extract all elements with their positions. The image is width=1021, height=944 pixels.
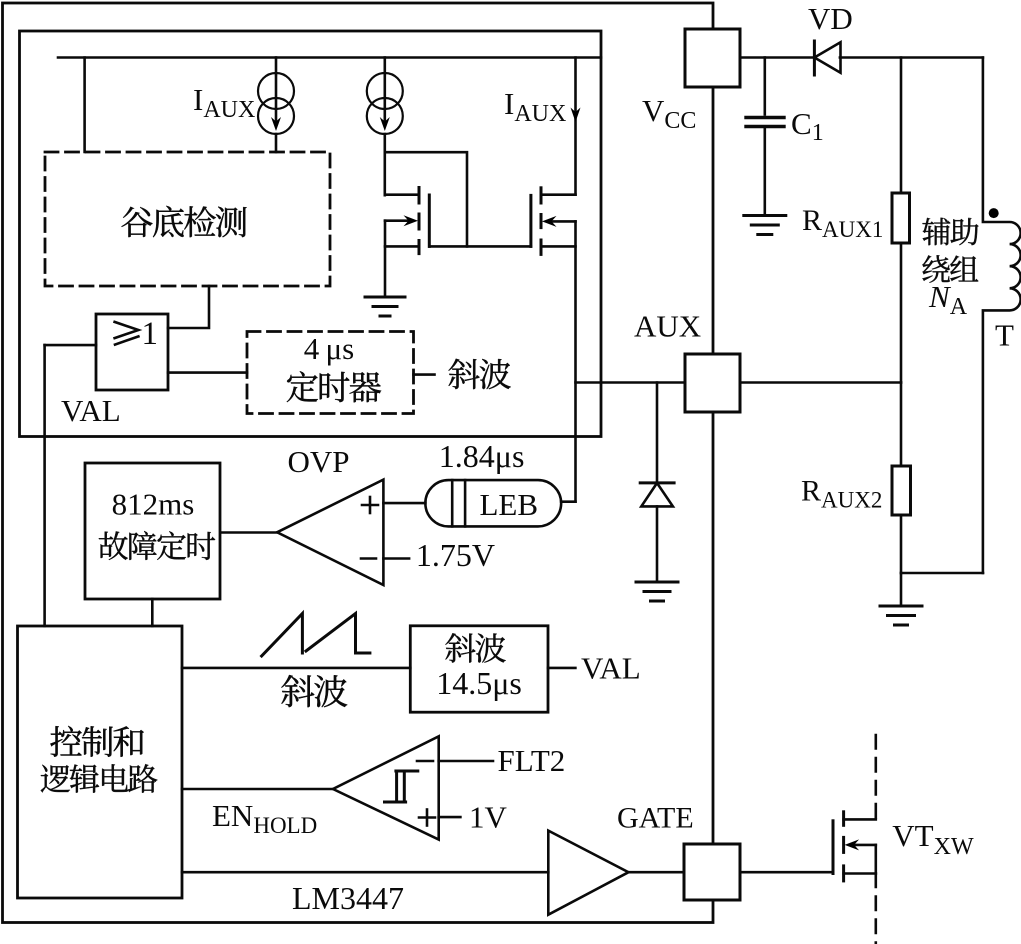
wire Q1 gate-drain tie [385,152,531,246]
label 斜波 (ramp wire) [281,675,347,707]
wire OR gate to timer [168,371,247,374]
label 辅助 [922,218,978,246]
ground under R_AUX2 [880,573,922,625]
wire control to ramp generator [182,667,410,670]
LEB block [425,480,561,526]
svg-text:LEB: LEB [480,487,539,522]
label 14.5μs [436,665,522,701]
IC outer box LM3447 [3,3,714,923]
valley detection dashed box [45,152,330,286]
label 1.75V [416,537,495,573]
label LM3447 [292,880,404,916]
label VAL (output) [581,651,641,686]
wire rail to valley-detect box [83,58,86,153]
label 控制和 [50,726,143,757]
wire timer ramp output [414,373,435,376]
auxiliary winding N_A [983,58,1021,574]
VCC pin square [685,29,740,87]
internal supply rail [58,56,601,59]
wire OVP- reference [383,557,409,560]
label VD [808,1,853,36]
label OVP [288,444,350,479]
label I_AUX (right) [504,86,566,127]
wire AUX net right [740,381,901,384]
OR gate box [96,314,168,390]
label T [995,318,1014,353]
wire Q2 drain to rail (I_AUX arrow) [571,58,581,195]
label ≥1 [115,316,158,352]
VT_XW drain dashed lead [874,735,877,819]
wire VAL output [548,667,575,670]
VT_XW source dashed lead [874,874,877,944]
label FLT2 [498,743,566,778]
svg-text:IAUX: IAUX [504,86,566,127]
svg-text:VAL: VAL [581,651,641,686]
current source I_AUX (left) [258,58,294,153]
svg-text:VD: VD [808,1,853,36]
resistor R_AUX1 [892,58,910,383]
label GATE [617,802,694,835]
label EN_HOLD [212,798,317,838]
label 斜波 (ramp box) [445,633,505,662]
label 逻辑电路 [41,764,158,793]
label 绕组 [922,255,978,283]
resistor R_AUX2 [892,383,911,574]
label LEB [480,487,539,522]
812ms fault timer box [85,463,220,599]
ramp waveform symbol [262,614,370,657]
wire valley-detect to OR gate [168,286,209,328]
svg-text:FLT2: FLT2 [498,743,566,778]
wire LEB to AUX sense [561,500,575,503]
label 定时器 [287,371,381,402]
ground under C1 [744,216,786,235]
wire AUX to clamp diode [656,383,659,484]
ramp generator box [410,626,548,712]
transistor Q2 (mirror output) [531,188,576,255]
wire OVP+ to LEB [383,502,425,505]
label 1.84μs [439,438,525,474]
4us timer dashed box [247,332,414,414]
label C1 [791,106,824,146]
wire OVP output to 812ms [222,531,277,534]
ground under Q1 [365,297,405,316]
label 1V [469,800,508,835]
svg-text:NA: NA [928,279,968,320]
label VAL (inner) [61,393,121,428]
gate driver buffer [548,831,628,915]
wire VCC to VD [740,56,814,59]
svg-text:1V: 1V [469,800,508,835]
polarity dot [989,208,999,218]
diode D1 (AUX clamp) [640,483,674,582]
current source I_AUX (right, mirror) [367,58,403,196]
label 斜波 (timer output) [448,359,510,389]
wire R_AUX2 to winding bottom [901,572,983,575]
wire control to gate driver [182,871,548,874]
wire AUX net left [576,381,686,384]
svg-text:C1: C1 [791,106,824,146]
svg-text:OVP: OVP [288,444,350,479]
comparator EN_HOLD [333,736,439,839]
wire VAL bus down to control logic [43,345,46,626]
label 812ms [112,487,195,522]
svg-text:1.75V: 1.75V [416,537,495,573]
wire GATE to VT_XW [740,871,833,874]
GATE pin square [684,844,740,900]
svg-text:812ms: 812ms [112,487,195,522]
transistor VT_XW [833,812,876,881]
label 4μs [304,331,354,366]
svg-text:T: T [995,318,1014,353]
svg-text:RAUX2: RAUX2 [801,475,882,513]
svg-text:IAUX: IAUX [193,82,255,123]
wire 1V reference [439,816,461,819]
svg-text:14.5μs: 14.5μs [436,665,522,701]
svg-text:VAL: VAL [61,393,121,428]
svg-text:1.84μs: 1.84μs [439,438,525,474]
label VT_XW [892,818,974,860]
label N_A [928,279,968,320]
wire Q2 source down to AUX/LEB node [574,221,577,501]
label AUX [634,309,701,344]
wire EN_HOLD to control logic [182,788,333,791]
capacitor C1 [746,58,784,215]
wire VD to winding top [840,56,983,59]
comparator OVP [277,480,383,585]
AUX pin square [685,354,740,412]
transistor Q1 (diode-connected mirror) [385,188,429,298]
wire VAL to OR gate input [45,344,96,347]
control logic box [18,626,183,898]
wire 812ms to control logic [151,599,154,626]
wire buffer to GATE pin [629,871,685,874]
ground under D1 [636,582,678,601]
svg-text:RAUX1: RAUX1 [802,204,883,242]
svg-text:1: 1 [142,316,159,352]
svg-text:VTXW: VTXW [892,818,974,860]
label R_AUX1 [802,204,883,242]
label R_AUX2 [801,475,882,513]
label 谷底检测 [121,206,246,237]
label I_AUX (left) [193,82,255,123]
svg-text:AUX: AUX [634,309,701,344]
svg-text:LM3447: LM3447 [292,880,404,916]
wire FLT2 [439,760,493,763]
svg-text:4 μs: 4 μs [304,331,354,366]
diode VD [814,41,840,75]
label 故障定时 [99,531,215,560]
svg-text:ENHOLD: ENHOLD [212,798,317,838]
label VCC [642,93,696,134]
svg-text:VCC: VCC [642,93,696,134]
inner mirror block box [20,31,602,437]
svg-text:GATE: GATE [617,802,694,835]
